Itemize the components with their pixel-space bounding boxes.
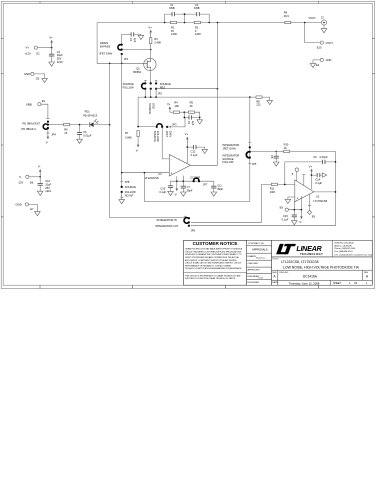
ground E7 [35, 212, 41, 216]
ground E2 [42, 78, 48, 82]
svg-text:E3: E3 [42, 99, 46, 103]
svg-text:JP2: JP2 [157, 92, 162, 96]
resistor R6 1K [64, 123, 70, 134]
svg-text:C6: C6 [83, 130, 87, 134]
ground R8 [267, 100, 273, 104]
wire E1 to C4 node [37, 47, 51, 49]
wire feedback drop to gate [97, 23, 144, 64]
svg-text:V-: V- [175, 192, 178, 196]
transistor Q1 BF862 [133, 58, 156, 74]
svg-text:GND: GND [24, 72, 30, 76]
svg-text:E10: E10 [317, 46, 322, 50]
capacitor C9 0.01uF [313, 155, 328, 164]
wire follower return to JP5 [144, 173, 249, 202]
capacitor C15 0.1uF [282, 210, 297, 222]
svg-text:TECHNOLOGY: TECHNOLOGY [300, 252, 323, 256]
svg-text:C10: C10 [45, 179, 50, 183]
svg-text:SOURCE: SOURCE [148, 103, 152, 114]
svg-text:-: - [171, 157, 172, 161]
wire JP3 pin2 to U1 minus [162, 127, 169, 159]
wire JP4 pin2 to R6 [49, 124, 64, 126]
wire JP1 bottom to gate and down [121, 54, 123, 173]
V+ power flag R4 [167, 102, 171, 112]
svg-text:10µF: 10µF [57, 53, 63, 57]
svg-text:CUSTOMER NOTICE: CUSTOMER NOTICE [193, 241, 238, 246]
svg-text:DWG NO.: DWG NO. [279, 272, 289, 274]
svg-text:DATE:: DATE: [272, 281, 278, 284]
svg-text:APPROVED: APPROVED [248, 269, 261, 272]
svg-text:V-: V- [38, 164, 41, 168]
svg-text:SIZE: SIZE [272, 272, 277, 274]
svg-text:V-: V- [19, 175, 22, 179]
svg-text:PD VBIAS EXT: PD VBIAS EXT [23, 121, 41, 125]
svg-text:0.01µF: 0.01µF [83, 134, 92, 138]
terminal E4 GND [316, 58, 331, 67]
wire integrator feedback C9 [285, 162, 336, 185]
svg-text:HOWEVER, IT REMAINS THE CUSTOM: HOWEVER, IT REMAINS THE CUSTOMER'S RESPO… [185, 253, 242, 256]
V- flag U2 [299, 210, 303, 225]
svg-text:FOLLOW: FOLLOW [123, 85, 135, 89]
node summing junction at PD [109, 124, 111, 126]
svg-text:1210: 1210 [57, 60, 63, 64]
ground below C4 [49, 62, 55, 66]
svg-text:JP1: JP1 [124, 57, 129, 61]
svg-text:LOW NOISE, HIGH VOLTAGE PHOTOD: LOW NOISE, HIGH VOLTAGE PHOTODIODE TIA [283, 265, 360, 269]
V- flag below R7 [136, 137, 140, 153]
svg-text:PD VBIAS V-: PD VBIAS V- [22, 127, 37, 131]
svg-text:APPLICATION. COMPONENT SUBSTI: APPLICATION. COMPONENT SUBSTITUTION AND … [185, 259, 238, 262]
svg-text:0.1µF: 0.1µF [191, 153, 198, 157]
resistor R2 0 [194, 21, 201, 36]
ground C3 [138, 34, 144, 39]
svg-text:C3: C3 [129, 38, 133, 42]
ground C8 [273, 162, 279, 166]
svg-text:V+: V+ [148, 25, 152, 29]
ground C14 sideways [322, 173, 326, 177]
svg-text:C14: C14 [315, 177, 320, 181]
terminal E8 [280, 205, 289, 211]
capacitor C16 0.1uF [159, 181, 173, 194]
wire E4 to ground [313, 60, 320, 64]
svg-text:25V: 25V [45, 186, 50, 190]
node V+ junction [51, 47, 53, 49]
svg-text:DESIGNER: DESIGNER [248, 282, 260, 284]
wire U2 plus to ground [288, 197, 295, 199]
svg-text:C10: C10 [160, 186, 165, 190]
svg-text:V+: V+ [185, 132, 189, 136]
svg-text:39pF: 39pF [187, 189, 193, 193]
svg-text:SHEET: SHEET [333, 282, 342, 285]
V- power flag [38, 164, 42, 176]
svg-text:V-: V- [299, 220, 302, 224]
ground JP8 [119, 200, 125, 204]
wire U2 output [314, 191, 336, 193]
V- flag U1 [175, 181, 179, 196]
svg-text:V-: V- [46, 141, 49, 145]
resistor R1 Rf [170, 21, 177, 36]
svg-text:0.1µF: 0.1µF [159, 190, 166, 194]
wire JP5 mid to integrator input [250, 150, 274, 152]
svg-text:TITLE:: TITLE: [272, 259, 279, 261]
svg-text:R3: R3 [154, 37, 158, 41]
wire R4 to node [179, 111, 188, 113]
balance pin circle U2 [292, 168, 299, 181]
svg-text:1630 McCarthy Blvd.,: 1630 McCarthy Blvd., [334, 241, 354, 244]
terminal E6 -12V [18, 175, 34, 184]
svg-text:R11: R11 [270, 186, 275, 190]
svg-text:VOUT: VOUT [309, 16, 317, 20]
wire R3 to Q1 drain [150, 44, 152, 59]
wire main output rail [97, 22, 170, 24]
svg-text:C8: C8 [270, 155, 274, 159]
svg-text:2K: 2K [190, 104, 193, 108]
svg-text:VERIFY PROPER AND RELIABLE OPE: VERIFY PROPER AND RELIABLE OPERATION IN … [185, 256, 239, 259]
wire U1 output [191, 164, 218, 166]
op-amp U2 LT1793CS8 [295, 180, 328, 203]
wire E3 to JP4 [41, 104, 48, 118]
test point E9 [307, 194, 315, 218]
svg-text:SUPPLIED FOR USE WITH LINEAR T: SUPPLIED FOR USE WITH LINEAR TECHNOLOGY … [185, 277, 236, 280]
wire E2 to ground [34, 74, 45, 79]
resistor R5 2K [188, 100, 194, 113]
svg-text:49.9: 49.9 [284, 14, 290, 18]
svg-text:Q1: Q1 [136, 67, 140, 71]
wire VOUT tap to E10 [305, 23, 321, 43]
ground below C6 [77, 139, 83, 143]
svg-text:1µF: 1µF [191, 121, 195, 126]
svg-text:NO INT: NO INT [125, 193, 134, 197]
ground C11 [211, 192, 217, 196]
svg-text:FOLLOW: FOLLOW [156, 131, 160, 143]
svg-text:BYPASS: BYPASS [100, 44, 110, 48]
wire Q1 source to JP2 [150, 71, 152, 84]
svg-text:0.1µF: 0.1µF [315, 181, 322, 185]
svg-text:V+: V+ [167, 102, 171, 106]
svg-text:JimB: JimB [258, 277, 263, 279]
svg-text:INTEGRATOR IN: INTEGRATOR IN [157, 218, 177, 222]
wire output column [217, 23, 219, 166]
resistor R7 3.09K [125, 131, 139, 140]
title / dwg rows [272, 257, 373, 285]
svg-text:JP3: JP3 [172, 122, 177, 126]
svg-text:R5: R5 [190, 100, 194, 104]
svg-text:VOUT: VOUT [326, 41, 334, 45]
wire E7 to ground [29, 204, 38, 211]
ground C5 node [197, 117, 203, 124]
svg-text:DRAWN: DRAWN [248, 255, 257, 258]
svg-text:FOLLOW: FOLLOW [222, 160, 234, 164]
svg-text:OF: OF [354, 282, 358, 285]
svg-text:E9: E9 [312, 215, 316, 219]
ground C7 [181, 192, 187, 196]
capacitor C8 [270, 151, 279, 162]
terminal E7 GND [16, 203, 35, 212]
jumper JP7 CCOMP [190, 175, 207, 186]
jumper JP2 [123, 81, 172, 96]
svg-text:JP4: JP4 [51, 133, 56, 137]
svg-text:BF862: BF862 [133, 70, 141, 74]
svg-text:0.01µF: 0.01µF [320, 155, 329, 159]
wire R11 from JP6 [191, 184, 271, 222]
resistor R9 49.9 [284, 11, 291, 24]
svg-text:10M: 10M [270, 190, 275, 194]
svg-text:DNB: DNB [194, 6, 200, 10]
wire U2 vplus pin [311, 175, 313, 189]
V+ power flag U2 [309, 165, 313, 176]
node V- junction [39, 176, 41, 178]
terminal E3 VBB [26, 99, 46, 106]
svg-text:V-: V- [136, 148, 139, 152]
wire R6 to C6 node [70, 124, 89, 126]
svg-text:C11: C11 [217, 183, 222, 187]
svg-text:GAIN: GAIN [168, 131, 172, 137]
jumper JP8 [120, 173, 136, 198]
svg-text:APPROVALS: APPROVALS [252, 247, 268, 251]
wire JP8 to ground [120, 192, 123, 200]
svg-text:C4: C4 [57, 50, 61, 54]
svg-text:DNB: DNB [169, 6, 175, 10]
svg-text:Thursday, June 12, 2008: Thursday, June 12, 2008 [289, 281, 320, 285]
svg-text:C9: C9 [313, 155, 317, 159]
svg-text:CHECKED: CHECKED [248, 263, 259, 265]
svg-text:PD1: PD1 [85, 110, 91, 114]
svg-text:LT1793CS8: LT1793CS8 [313, 199, 327, 203]
node C6 junction [79, 124, 81, 126]
jumper JP4 [22, 119, 57, 137]
terminal E10 VOUT [317, 41, 333, 50]
svg-text:-: - [296, 183, 297, 187]
resistor R11 10M [270, 183, 278, 194]
wire summing node to integrator in [110, 125, 186, 218]
sheet frame [1, 2, 374, 289]
svg-text:GND: GND [16, 203, 22, 207]
svg-text:E1: E1 [37, 52, 41, 56]
svg-text:10K: 10K [174, 104, 179, 108]
wire U1 lower pins row [171, 176, 214, 182]
jumper JP6 [155, 216, 195, 232]
wire summing node vertical [109, 63, 111, 124]
svg-text:GND: GND [326, 58, 332, 62]
pin stub U2 top [302, 174, 305, 185]
V+ power flag U1 [185, 132, 189, 147]
node junctions on main rail [164, 22, 166, 24]
node gate/JP1 junction [121, 63, 123, 65]
svg-text:-12V: -12V [18, 180, 24, 184]
wire E6 to C10 node [29, 176, 40, 178]
svg-text:Phone: (408)432-1900: Phone: (408)432-1900 [334, 248, 356, 250]
svg-text:LT1222CS8, LT1793CS8: LT1222CS8, LT1793CS8 [281, 260, 319, 264]
svg-text:CIRCUIT BOARD LAYOUT MAY SIGNI: CIRCUIT BOARD LAYOUT MAY SIGNIFICANTLY A… [185, 262, 242, 265]
wire U2 minus input [277, 183, 294, 185]
svg-text:+: + [171, 171, 173, 175]
ground E4 [310, 63, 316, 67]
terminal E1 +12V [25, 46, 41, 56]
linear technology logo block [272, 240, 374, 257]
svg-text:CIRCUIT THAT MEETS CUSTOMER-SU: CIRCUIT THAT MEETS CUSTOMER-SUPPLIED SPE… [185, 250, 242, 253]
svg-text:C5: C5 [187, 121, 191, 125]
svg-text:1210: 1210 [45, 189, 51, 193]
svg-text:39pF: 39pF [217, 187, 223, 191]
jumper JP5 [222, 97, 256, 201]
wire R5 to corner down [194, 112, 199, 117]
svg-text:FOLLOW: FOLLOW [125, 190, 137, 194]
capacitor C11 39pF [211, 181, 223, 192]
capacitor C3 1uF [122, 32, 141, 44]
wire R10 to output node [290, 151, 336, 226]
wire source bus [138, 97, 270, 127]
svg-text:JP6: JP6 [191, 228, 196, 232]
svg-text:GND: GND [152, 103, 156, 109]
svg-text:0.1µF: 0.1µF [282, 217, 289, 221]
ground C16 [168, 191, 174, 195]
wire U1 vplus pin [186, 147, 188, 163]
svg-text:Fax: (408)434-0507: Fax: (408)434-0507 [334, 251, 353, 253]
capacitor C2 DNB [194, 3, 200, 16]
wire E8 row [288, 196, 301, 210]
svg-text:C7: C7 [187, 185, 191, 189]
svg-text:R7: R7 [125, 131, 129, 135]
ground C15 [292, 221, 298, 225]
svg-text:E2: E2 [36, 77, 40, 81]
JP4 pin3 to V- flag [46, 129, 50, 145]
svg-text:1206: 1206 [171, 32, 177, 36]
svg-text:E4: E4 [316, 63, 320, 67]
svg-text:JFET GAIN: JFET GAIN [99, 51, 112, 55]
op-amp U1 LT1222CS8 [145, 155, 191, 181]
wire U1 plus input [122, 172, 170, 174]
svg-text:PERFORMANCE OR RELIABILITY. C: PERFORMANCE OR RELIABILITY. CONTACT LINE… [185, 264, 231, 267]
resistor R4 10K [170, 100, 180, 113]
svg-text:V+: V+ [49, 36, 53, 40]
capacitor C14 0.1uF [312, 173, 323, 185]
svg-text:1K: 1K [64, 131, 67, 135]
svg-text:U2: U2 [316, 194, 320, 198]
svg-text:+12V: +12V [25, 52, 31, 56]
customer notice box [184, 240, 247, 285]
wire JP1 mid to drain [122, 49, 151, 51]
svg-text:E8: E8 [280, 205, 284, 209]
wire node link down [183, 112, 185, 117]
svg-text:3.09K: 3.09K [125, 136, 132, 140]
svg-text:25V: 25V [57, 57, 62, 61]
svg-text:LINEAR TECHNOLOGY HAS MADE A B: LINEAR TECHNOLOGY HAS MADE A BEST EFFORT… [185, 248, 243, 251]
node gate/PD junction [109, 63, 111, 65]
svg-text:PD-SFH213: PD-SFH213 [83, 113, 98, 117]
svg-text:CONTRACT NO.: CONTRACT NO. [248, 242, 265, 245]
svg-text:VBB: VBB [26, 102, 32, 106]
svg-text:Rickyboy: Rickyboy [256, 258, 266, 260]
svg-text:E6: E6 [30, 180, 34, 184]
svg-text:Milpitas, CA 95035: Milpitas, CA 95035 [334, 244, 352, 247]
ground C12 [202, 149, 208, 153]
ground U2 plus [285, 199, 291, 203]
svg-text:JP8: JP8 [125, 180, 130, 184]
ground below C10 [37, 191, 43, 195]
connector J3 VOUT [309, 15, 327, 32]
svg-text:TECHNOLOGY APPLICATIONS ENGINE: TECHNOLOGY APPLICATIONS ENGINEERING FOR … [185, 267, 242, 270]
V+ power flag R3 [148, 25, 152, 37]
wire JP2 bottom pins to source bus [145, 89, 156, 97]
resistor R10 [273, 143, 289, 153]
svg-text:THIS CIRCUIT IS PROPRIETARY TO: THIS CIRCUIT IS PROPRIETARY TO LINEAR TE… [185, 274, 241, 277]
svg-text:C15: C15 [283, 214, 288, 218]
svg-text:JP5: JP5 [252, 162, 257, 166]
svg-text:JFET GAIN: JFET GAIN [222, 146, 235, 150]
svg-text:V+: V+ [26, 46, 30, 50]
approvals column [247, 240, 272, 285]
jumper JP1 [99, 41, 129, 61]
svg-text:V+: V+ [309, 165, 313, 169]
capacitor C4 [49, 48, 63, 64]
svg-text:SOURCE: SOURCE [125, 185, 136, 189]
svg-text:LT1222CS8: LT1222CS8 [145, 176, 159, 180]
svg-text:LTC Confidential-For Customer: LTC Confidential-For Customer Use Only [334, 253, 373, 256]
resistor R3 2.49K [150, 37, 162, 44]
wire JP3 pin3 to R4R5 node [167, 117, 185, 128]
wire bus corner to JP3 [138, 126, 155, 128]
svg-text:INTEGRATOR OUT: INTEGRATOR OUT [155, 224, 178, 228]
capacitor C1 DNB [169, 3, 175, 16]
capacitor C10 [38, 177, 52, 193]
svg-text:JP7: JP7 [203, 183, 208, 187]
svg-text:+: + [296, 197, 298, 201]
photodiode PD1 PD-SFH213 [83, 110, 109, 127]
capacitor C7 39pF [181, 181, 193, 192]
wire upper capacitor rail [165, 14, 210, 22]
svg-text:221: 221 [256, 103, 261, 107]
capacitor C12 0.1uF [187, 145, 204, 157]
svg-text:2.49K: 2.49K [154, 41, 161, 45]
V+ power flag [49, 36, 53, 48]
svg-text:1K: 1K [284, 146, 287, 150]
capacitor C5 1uF [184, 115, 201, 125]
wire integrator out return [191, 225, 336, 227]
svg-text:E7: E7 [30, 207, 34, 211]
svg-text:10µF: 10µF [45, 182, 51, 186]
terminal E2 GND [24, 72, 40, 81]
svg-text:REV: REV [364, 272, 369, 274]
svg-text:R4: R4 [174, 100, 178, 104]
wire JP2 source-res tap to output column [156, 88, 217, 90]
svg-text:1µF: 1µF [133, 38, 137, 43]
jumper JP3 [153, 122, 177, 142]
svg-text:DC1416A: DC1416A [303, 274, 318, 278]
resistor R8 221 [256, 96, 262, 107]
svg-text:1206: 1206 [195, 32, 201, 36]
capacitor C6 0.01uF [77, 125, 92, 140]
